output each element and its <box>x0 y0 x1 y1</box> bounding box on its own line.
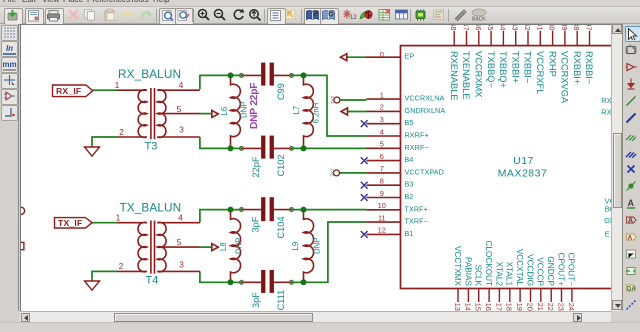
svg-text:SCLK: SCLK <box>474 265 483 287</box>
svg-text:VCCRXFL: VCCRXFL <box>535 51 545 94</box>
svg-text:22: 22 <box>546 303 555 311</box>
svg-text:TX_BALUN: TX_BALUN <box>120 201 182 215</box>
svg-text:L7: L7 <box>292 106 301 115</box>
svg-text:RX_IF: RX_IF <box>56 86 81 96</box>
svg-text:0: 0 <box>380 50 384 59</box>
svg-text:T4: T4 <box>146 275 159 287</box>
svg-text:VCCRXMX: VCCRXMX <box>474 51 484 98</box>
svg-text:2: 2 <box>119 261 124 271</box>
svg-text:C102: C102 <box>276 155 286 177</box>
svg-text:E: E <box>605 230 610 239</box>
svg-text:3: 3 <box>179 124 184 134</box>
svg-text:TXBBQ−: TXBBQ− <box>486 51 496 88</box>
svg-text:3pF: 3pF <box>251 292 261 308</box>
svg-text:37: 37 <box>585 25 594 31</box>
svg-text:44: 44 <box>498 25 507 31</box>
svg-text:TXRF−: TXRF− <box>405 217 428 226</box>
svg-text:VCCDIG: VCCDIG <box>525 254 534 286</box>
svg-text:DNP: DNP <box>234 238 243 254</box>
svg-text:TXBBI−: TXBBI− <box>523 51 533 83</box>
svg-text:B4: B4 <box>405 155 414 164</box>
svg-text:EP: EP <box>405 52 415 61</box>
svg-text:MAX2837: MAX2837 <box>498 168 548 180</box>
svg-text:3: 3 <box>380 115 384 124</box>
svg-text:2: 2 <box>119 127 124 137</box>
svg-text:PABIAS: PABIAS <box>463 257 472 287</box>
svg-text:DNP: DNP <box>312 238 321 254</box>
svg-text:19: 19 <box>515 303 524 311</box>
svg-text:T3: T3 <box>145 141 158 153</box>
svg-text:17: 17 <box>494 303 503 311</box>
svg-text:18: 18 <box>505 303 514 311</box>
svg-text:TXRF+: TXRF+ <box>405 204 428 213</box>
svg-text:1: 1 <box>116 213 121 223</box>
svg-text:A: A <box>627 198 634 208</box>
svg-text:13: 13 <box>453 303 462 311</box>
svg-text:DA: DA <box>627 286 636 292</box>
svg-text:1: 1 <box>380 90 384 99</box>
svg-text:VCCXTAL: VCCXTAL <box>515 249 524 287</box>
svg-text:24: 24 <box>567 303 576 311</box>
svg-text:23: 23 <box>557 303 566 311</box>
svg-text:123: 123 <box>350 15 357 21</box>
svg-text:DNP 22pF: DNP 22pF <box>249 83 260 129</box>
svg-text:5: 5 <box>380 140 384 149</box>
svg-text:VCCRXVGA: VCCRXVGA <box>560 51 570 104</box>
svg-text:VCCCP: VCCCP <box>536 257 545 286</box>
svg-text:48: 48 <box>449 25 458 31</box>
svg-text:TXBBQ+: TXBBQ+ <box>498 51 508 88</box>
svg-text:RXHP: RXHP <box>547 51 557 77</box>
svg-text:5: 5 <box>177 237 182 247</box>
svg-text:38: 38 <box>572 25 581 31</box>
svg-text:42: 42 <box>523 25 532 31</box>
svg-text:15: 15 <box>474 303 483 311</box>
svg-text:CPOUT−: CPOUT− <box>567 253 576 287</box>
svg-text:RXENABLE: RXENABLE <box>449 51 459 101</box>
svg-text:40: 40 <box>548 25 557 31</box>
svg-text:RXBBI+: RXBBI+ <box>572 51 582 84</box>
svg-text:B2: B2 <box>405 192 414 201</box>
svg-text:XTAL1: XTAL1 <box>505 262 514 287</box>
svg-text:B3: B3 <box>405 180 414 189</box>
svg-text:RXBBI−: RXBBI− <box>584 51 594 84</box>
svg-text:3V3: 3V3 <box>330 168 335 177</box>
svg-text:TXBBI+: TXBBI+ <box>510 51 520 83</box>
svg-text:45: 45 <box>486 25 495 31</box>
svg-text:TXENABLE: TXENABLE <box>461 51 471 100</box>
svg-text:C111: C111 <box>276 290 286 311</box>
svg-text:41: 41 <box>535 25 544 31</box>
svg-text:VCCTXMX: VCCTXMX <box>453 246 462 287</box>
svg-text:B5: B5 <box>405 118 414 127</box>
svg-text:39: 39 <box>560 25 569 31</box>
svg-text:6.2nH: 6.2nH <box>311 103 320 124</box>
svg-text:A: A <box>628 217 633 224</box>
svg-text:22pF: 22pF <box>251 156 261 177</box>
svg-text:9: 9 <box>380 189 384 198</box>
svg-text:C104: C104 <box>276 217 286 239</box>
svg-text:L6: L6 <box>220 107 229 116</box>
svg-text:BACK: BACK <box>472 17 486 23</box>
svg-text:VCCTXPAD: VCCTXPAD <box>405 167 444 176</box>
svg-text:VCCRXLNA: VCCRXLNA <box>405 94 445 103</box>
svg-text:1: 1 <box>115 80 120 90</box>
svg-text:8: 8 <box>380 177 384 186</box>
svg-text:GNDCP: GNDCP <box>546 256 555 286</box>
svg-text:3pF: 3pF <box>250 216 260 232</box>
svg-text:DNP: DNP <box>240 102 249 118</box>
svg-text:16: 16 <box>484 303 493 311</box>
svg-text:47: 47 <box>462 25 471 31</box>
svg-text:L9: L9 <box>291 242 300 251</box>
svg-text:A: A <box>627 234 632 241</box>
svg-text:B1: B1 <box>405 229 414 238</box>
svg-text:20: 20 <box>526 303 535 311</box>
svg-text:RXRF+: RXRF+ <box>405 131 429 140</box>
svg-text:XTAL2: XTAL2 <box>494 262 503 287</box>
svg-text:CPOUT+: CPOUT+ <box>556 253 565 287</box>
svg-text:C99: C99 <box>276 83 286 100</box>
svg-text:11: 11 <box>378 213 386 222</box>
svg-text:TX_IF: TX_IF <box>58 218 82 228</box>
svg-text:6: 6 <box>380 152 384 161</box>
svg-text:5: 5 <box>177 104 182 114</box>
svg-text:RXRF−: RXRF− <box>405 143 429 152</box>
svg-text:4: 4 <box>178 213 183 223</box>
svg-text:43: 43 <box>511 25 520 31</box>
svg-text:7: 7 <box>380 164 384 173</box>
svg-text:RX_BALUN: RX_BALUN <box>118 67 181 81</box>
svg-text:U17: U17 <box>513 155 534 167</box>
svg-text:21: 21 <box>536 303 545 311</box>
svg-text:3V3: 3V3 <box>330 95 335 104</box>
svg-text:GNDRXLNA: GNDRXLNA <box>405 106 446 115</box>
svg-text:4: 4 <box>380 127 384 136</box>
svg-text:12: 12 <box>378 226 386 235</box>
svg-text:L8: L8 <box>219 242 228 251</box>
svg-text:2: 2 <box>380 103 384 112</box>
svg-text:10: 10 <box>378 201 386 210</box>
svg-text:4: 4 <box>179 80 184 90</box>
svg-text:CLOCKOUT: CLOCKOUT <box>484 240 493 286</box>
svg-text:14: 14 <box>463 303 472 311</box>
svg-text:46: 46 <box>474 25 483 31</box>
svg-text:3: 3 <box>179 260 184 270</box>
